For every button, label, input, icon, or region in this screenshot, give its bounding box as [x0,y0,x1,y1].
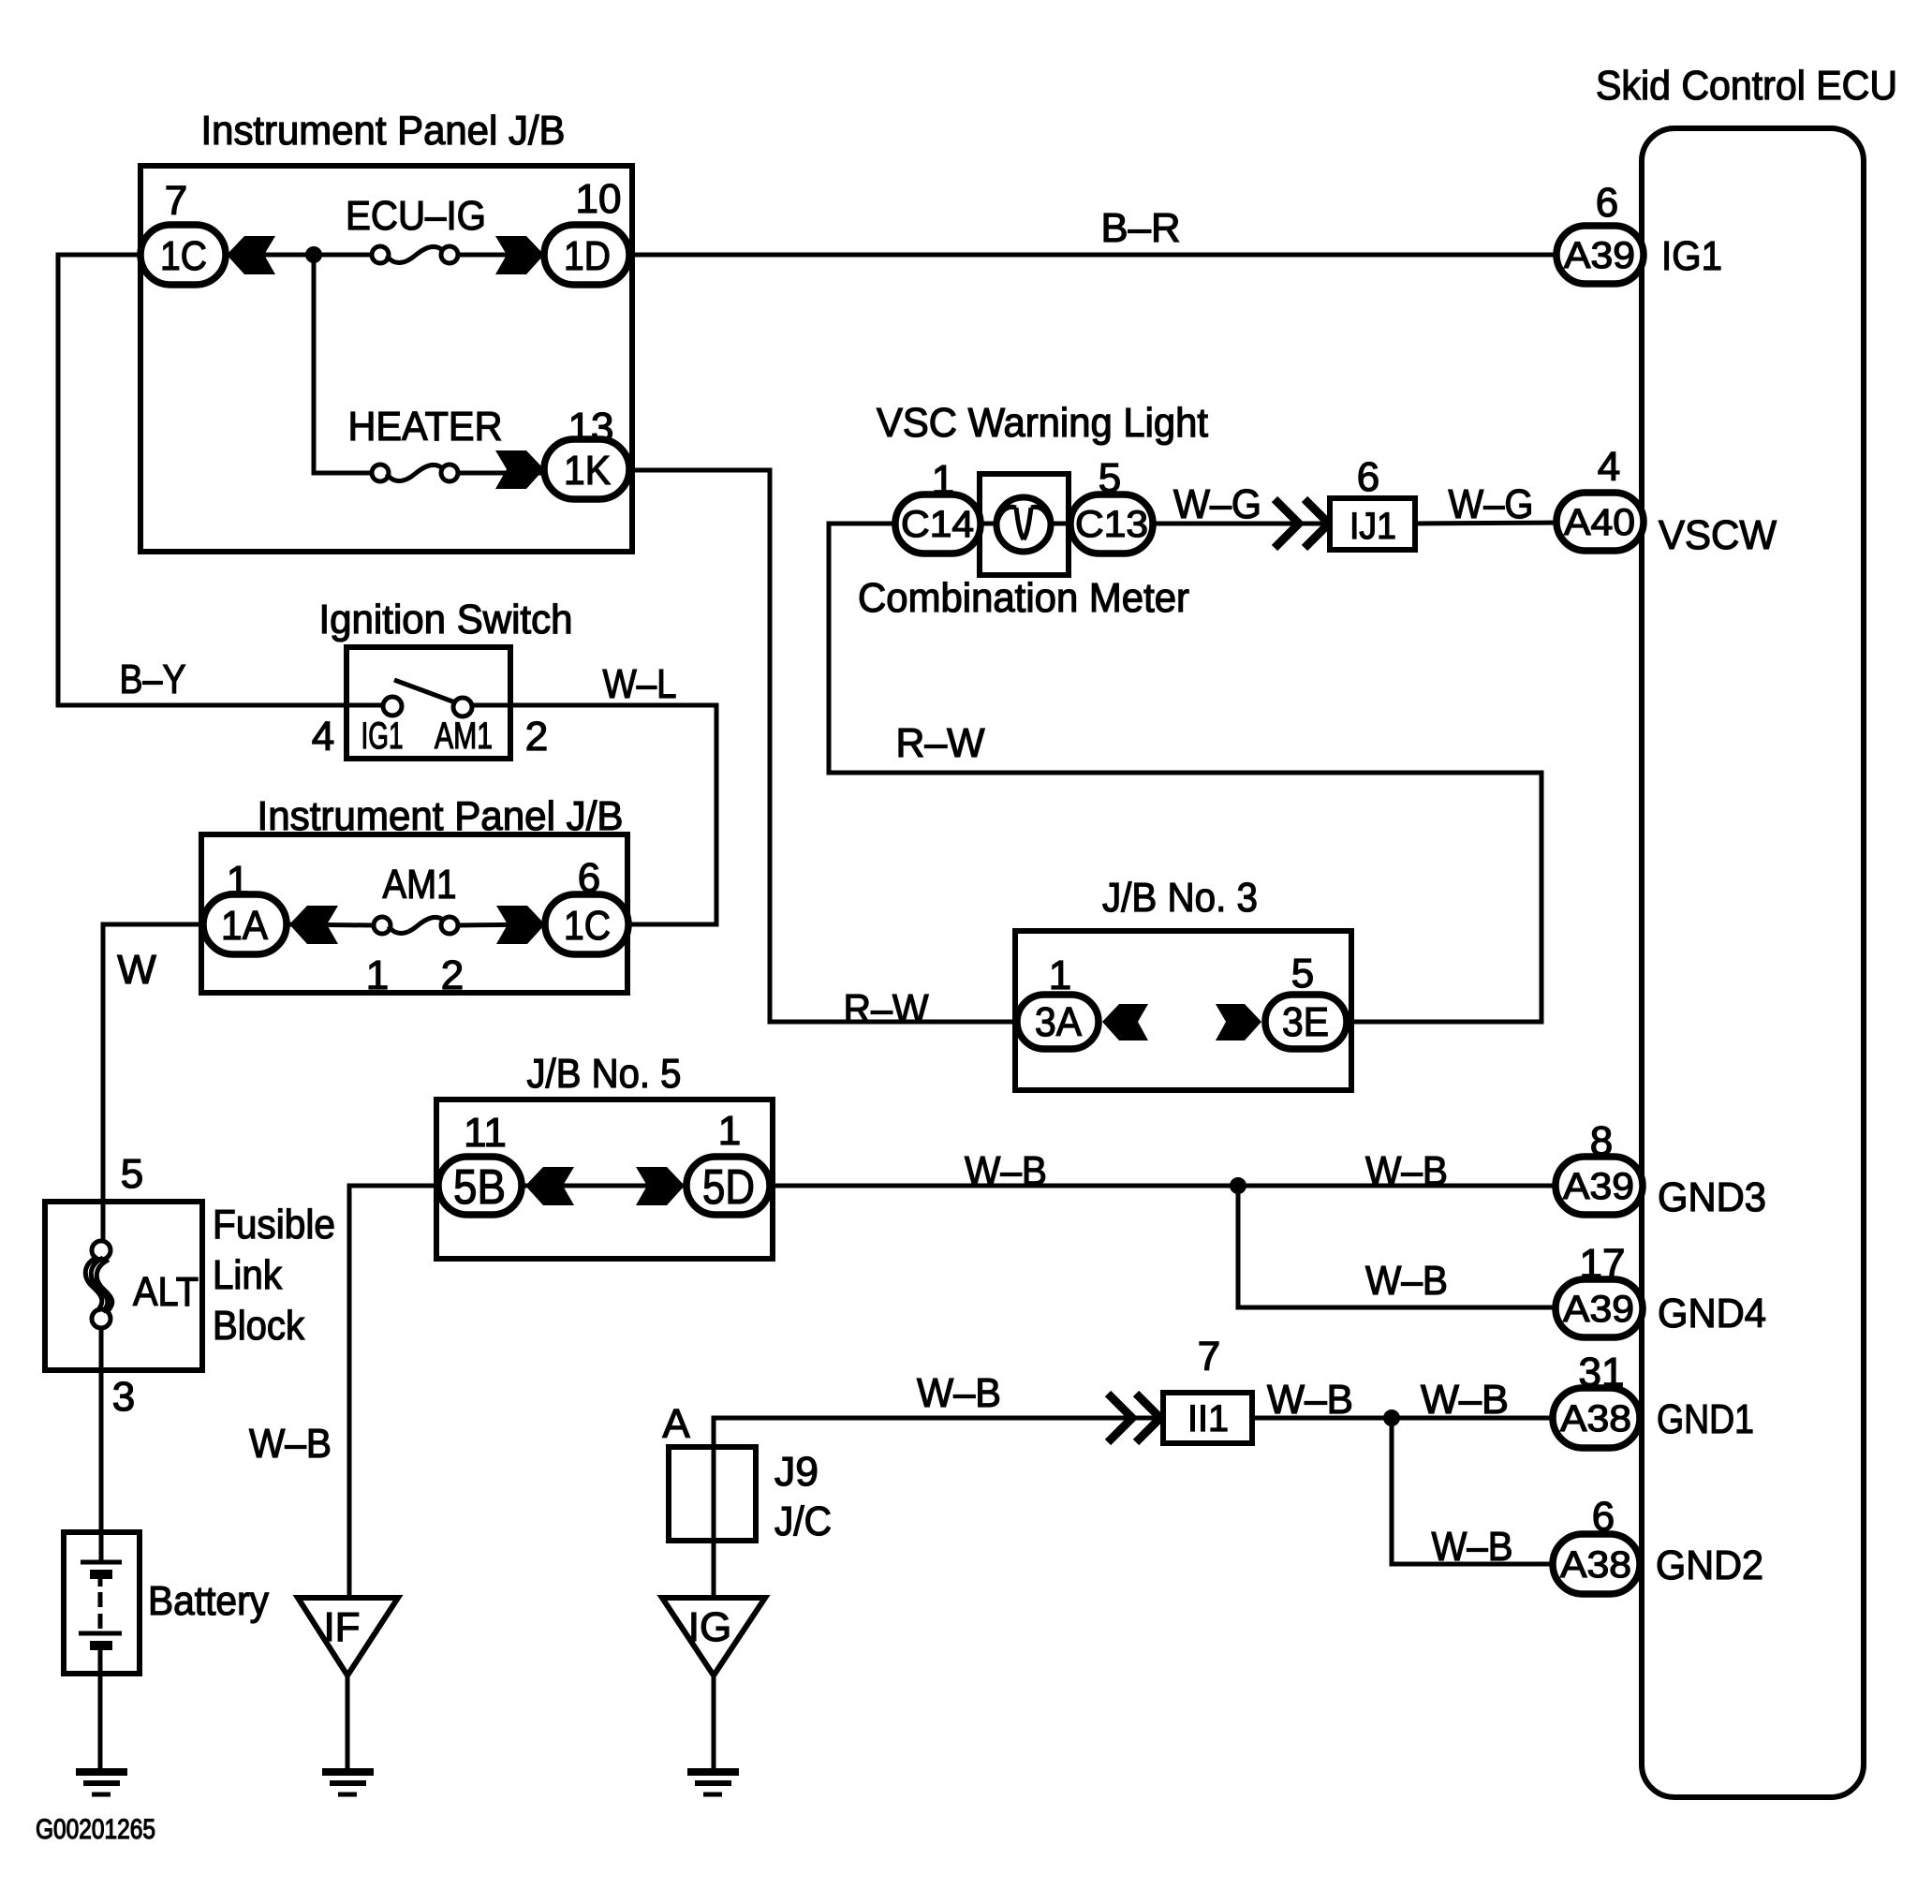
svg-text:W–B: W–B [1365,1148,1448,1194]
svg-text:5: 5 [121,1151,143,1197]
svg-text:1: 1 [932,457,954,503]
svg-text:Instrument Panel J/B: Instrument Panel J/B [201,108,566,154]
svg-text:Block: Block [213,1303,305,1349]
svg-text:W–B: W–B [1365,1258,1448,1304]
svg-text:6: 6 [578,855,600,901]
svg-text:4: 4 [312,714,334,760]
svg-text:J9: J9 [774,1449,819,1495]
svg-text:1: 1 [366,952,389,998]
svg-text:GND1: GND1 [1657,1396,1754,1442]
svg-text:11: 11 [464,1110,507,1156]
svg-text:ECU–IG: ECU–IG [346,193,486,239]
svg-text:1D: 1D [564,233,611,279]
svg-text:1: 1 [718,1108,741,1154]
svg-text:6: 6 [1357,454,1379,500]
svg-text:Ignition Switch: Ignition Switch [319,597,573,642]
svg-text:A39: A39 [1563,1166,1634,1207]
svg-text:C13: C13 [1075,504,1148,545]
svg-text:5D: 5D [702,1160,755,1215]
svg-text:Link: Link [213,1252,283,1298]
svg-text:W–B: W–B [249,1421,332,1467]
svg-text:J/B No. 3: J/B No. 3 [1102,875,1258,921]
svg-text:Battery: Battery [148,1578,269,1624]
svg-text:HEATER: HEATER [348,404,503,450]
svg-text:2: 2 [525,714,548,760]
svg-text:1: 1 [227,858,249,904]
svg-text:6: 6 [1592,1494,1615,1540]
svg-text:W–B: W–B [917,1370,1001,1416]
svg-text:GND3: GND3 [1658,1174,1766,1220]
svg-text:10: 10 [576,176,622,222]
svg-text:17: 17 [1580,1241,1626,1287]
svg-text:4: 4 [1598,444,1620,490]
svg-text:IJ1: IJ1 [1349,506,1396,547]
svg-text:A38: A38 [1560,1544,1631,1586]
svg-text:W–B: W–B [965,1148,1047,1194]
svg-text:6: 6 [1596,180,1618,226]
svg-text:W–B: W–B [1432,1524,1513,1570]
svg-text:1C: 1C [564,903,611,949]
svg-text:GND4: GND4 [1658,1291,1766,1336]
svg-text:3E: 3E [1282,999,1329,1045]
svg-text:A39: A39 [1564,235,1635,276]
svg-text:1C: 1C [160,233,207,279]
svg-text:VSC Warning Light: VSC Warning Light [877,400,1208,446]
svg-text:II1: II1 [1187,1398,1229,1439]
svg-text:G00201265: G00201265 [36,1814,155,1845]
svg-text:ALT: ALT [133,1269,199,1315]
svg-text:B–Y: B–Y [120,657,186,702]
svg-text:Combination Meter: Combination Meter [858,575,1189,621]
svg-text:A38: A38 [1560,1398,1631,1439]
svg-text:IG: IG [688,1604,731,1650]
svg-text:A: A [662,1401,690,1447]
svg-text:R–W: R–W [844,986,929,1032]
svg-text:3A: 3A [1035,999,1083,1045]
svg-text:Skid Control ECU: Skid Control ECU [1596,63,1897,109]
svg-text:GND2: GND2 [1656,1542,1763,1588]
svg-text:IG1: IG1 [361,716,404,757]
svg-text:31: 31 [1579,1350,1625,1395]
svg-text:13: 13 [568,405,614,450]
svg-text:R–W: R–W [896,720,985,766]
svg-text:Fusible: Fusible [213,1202,335,1247]
svg-text:5: 5 [1291,951,1314,996]
svg-text:7: 7 [165,178,187,224]
svg-text:A40: A40 [1564,502,1635,543]
svg-text:W–B: W–B [1421,1377,1509,1423]
svg-text:3: 3 [112,1374,135,1420]
svg-text:5: 5 [1099,455,1121,501]
svg-text:Instrument Panel J/B: Instrument Panel J/B [258,793,624,839]
svg-text:1: 1 [1049,952,1071,998]
svg-text:A39: A39 [1563,1289,1634,1330]
svg-text:AM1: AM1 [435,716,493,757]
svg-text:W–G: W–G [1449,481,1534,527]
svg-text:C14: C14 [901,504,974,545]
svg-text:2: 2 [441,952,464,998]
svg-text:J/B No. 5: J/B No. 5 [527,1051,682,1097]
svg-text:J/C: J/C [774,1498,832,1544]
svg-text:W: W [117,947,156,993]
svg-text:AM1: AM1 [383,862,457,908]
svg-text:IF: IF [323,1604,360,1650]
svg-text:8: 8 [1590,1118,1613,1164]
svg-text:5B: 5B [453,1160,506,1215]
svg-text:W–G: W–G [1173,481,1261,527]
svg-text:7: 7 [1198,1334,1220,1380]
svg-text:B–R: B–R [1101,205,1181,251]
svg-text:VSCW: VSCW [1659,512,1777,558]
svg-text:W–L: W–L [603,661,677,707]
svg-text:1K: 1K [564,448,611,494]
svg-text:IG1: IG1 [1661,233,1722,279]
svg-text:1A: 1A [221,903,269,949]
svg-text:W–B: W–B [1267,1377,1353,1423]
